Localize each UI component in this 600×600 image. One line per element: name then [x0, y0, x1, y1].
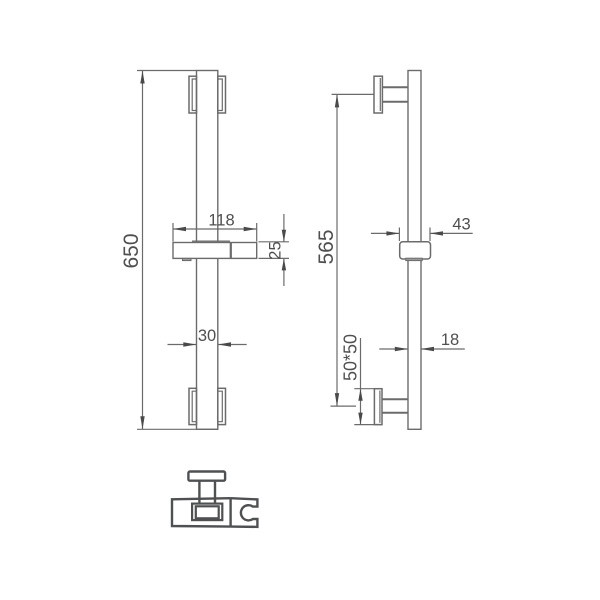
svg-text:30: 30: [198, 327, 216, 345]
holder bracket detail: stem: [199, 481, 215, 504]
dimension 50*50: [354, 338, 382, 425]
svg-text:18: 18: [441, 331, 459, 349]
dimension 565: [331, 94, 375, 406]
top wall bracket left half (front): [189, 76, 197, 113]
svg-text:43: 43: [452, 216, 470, 234]
rail bar side view: [408, 71, 421, 430]
dimension 43: [371, 228, 473, 242]
holder bracket detail: T-handle cap: [188, 472, 225, 481]
dimension 650: [137, 71, 218, 430]
bottom mount arm side view: [382, 399, 408, 412]
svg-text:25: 25: [267, 241, 285, 259]
slider holder front view: [173, 241, 257, 260]
top wall bracket right half (front): [218, 76, 226, 113]
slider side view: [400, 242, 431, 261]
svg-text:650: 650: [120, 233, 143, 268]
holder bracket detail: inner plate: [192, 504, 222, 520]
bottom wall flange side view: [374, 389, 382, 425]
svg-text:118: 118: [208, 212, 234, 230]
top mount arm side view: [382, 87, 408, 102]
holder bracket detail: body block: [172, 498, 231, 527]
dimension 30: [168, 344, 247, 346]
dimension 25: [259, 214, 290, 286]
dimension 18: [379, 348, 465, 350]
bottom wall bracket left half (front): [189, 388, 197, 424]
holder bracket detail: clip piece with C opening: [231, 498, 258, 527]
top wall flange side view: [374, 76, 382, 113]
svg-text:50*50: 50*50: [341, 334, 361, 381]
dimension 118: [173, 223, 257, 242]
svg-text:565: 565: [315, 229, 338, 264]
rail bar front view: [197, 71, 218, 430]
bottom wall bracket right half (front): [218, 388, 226, 424]
